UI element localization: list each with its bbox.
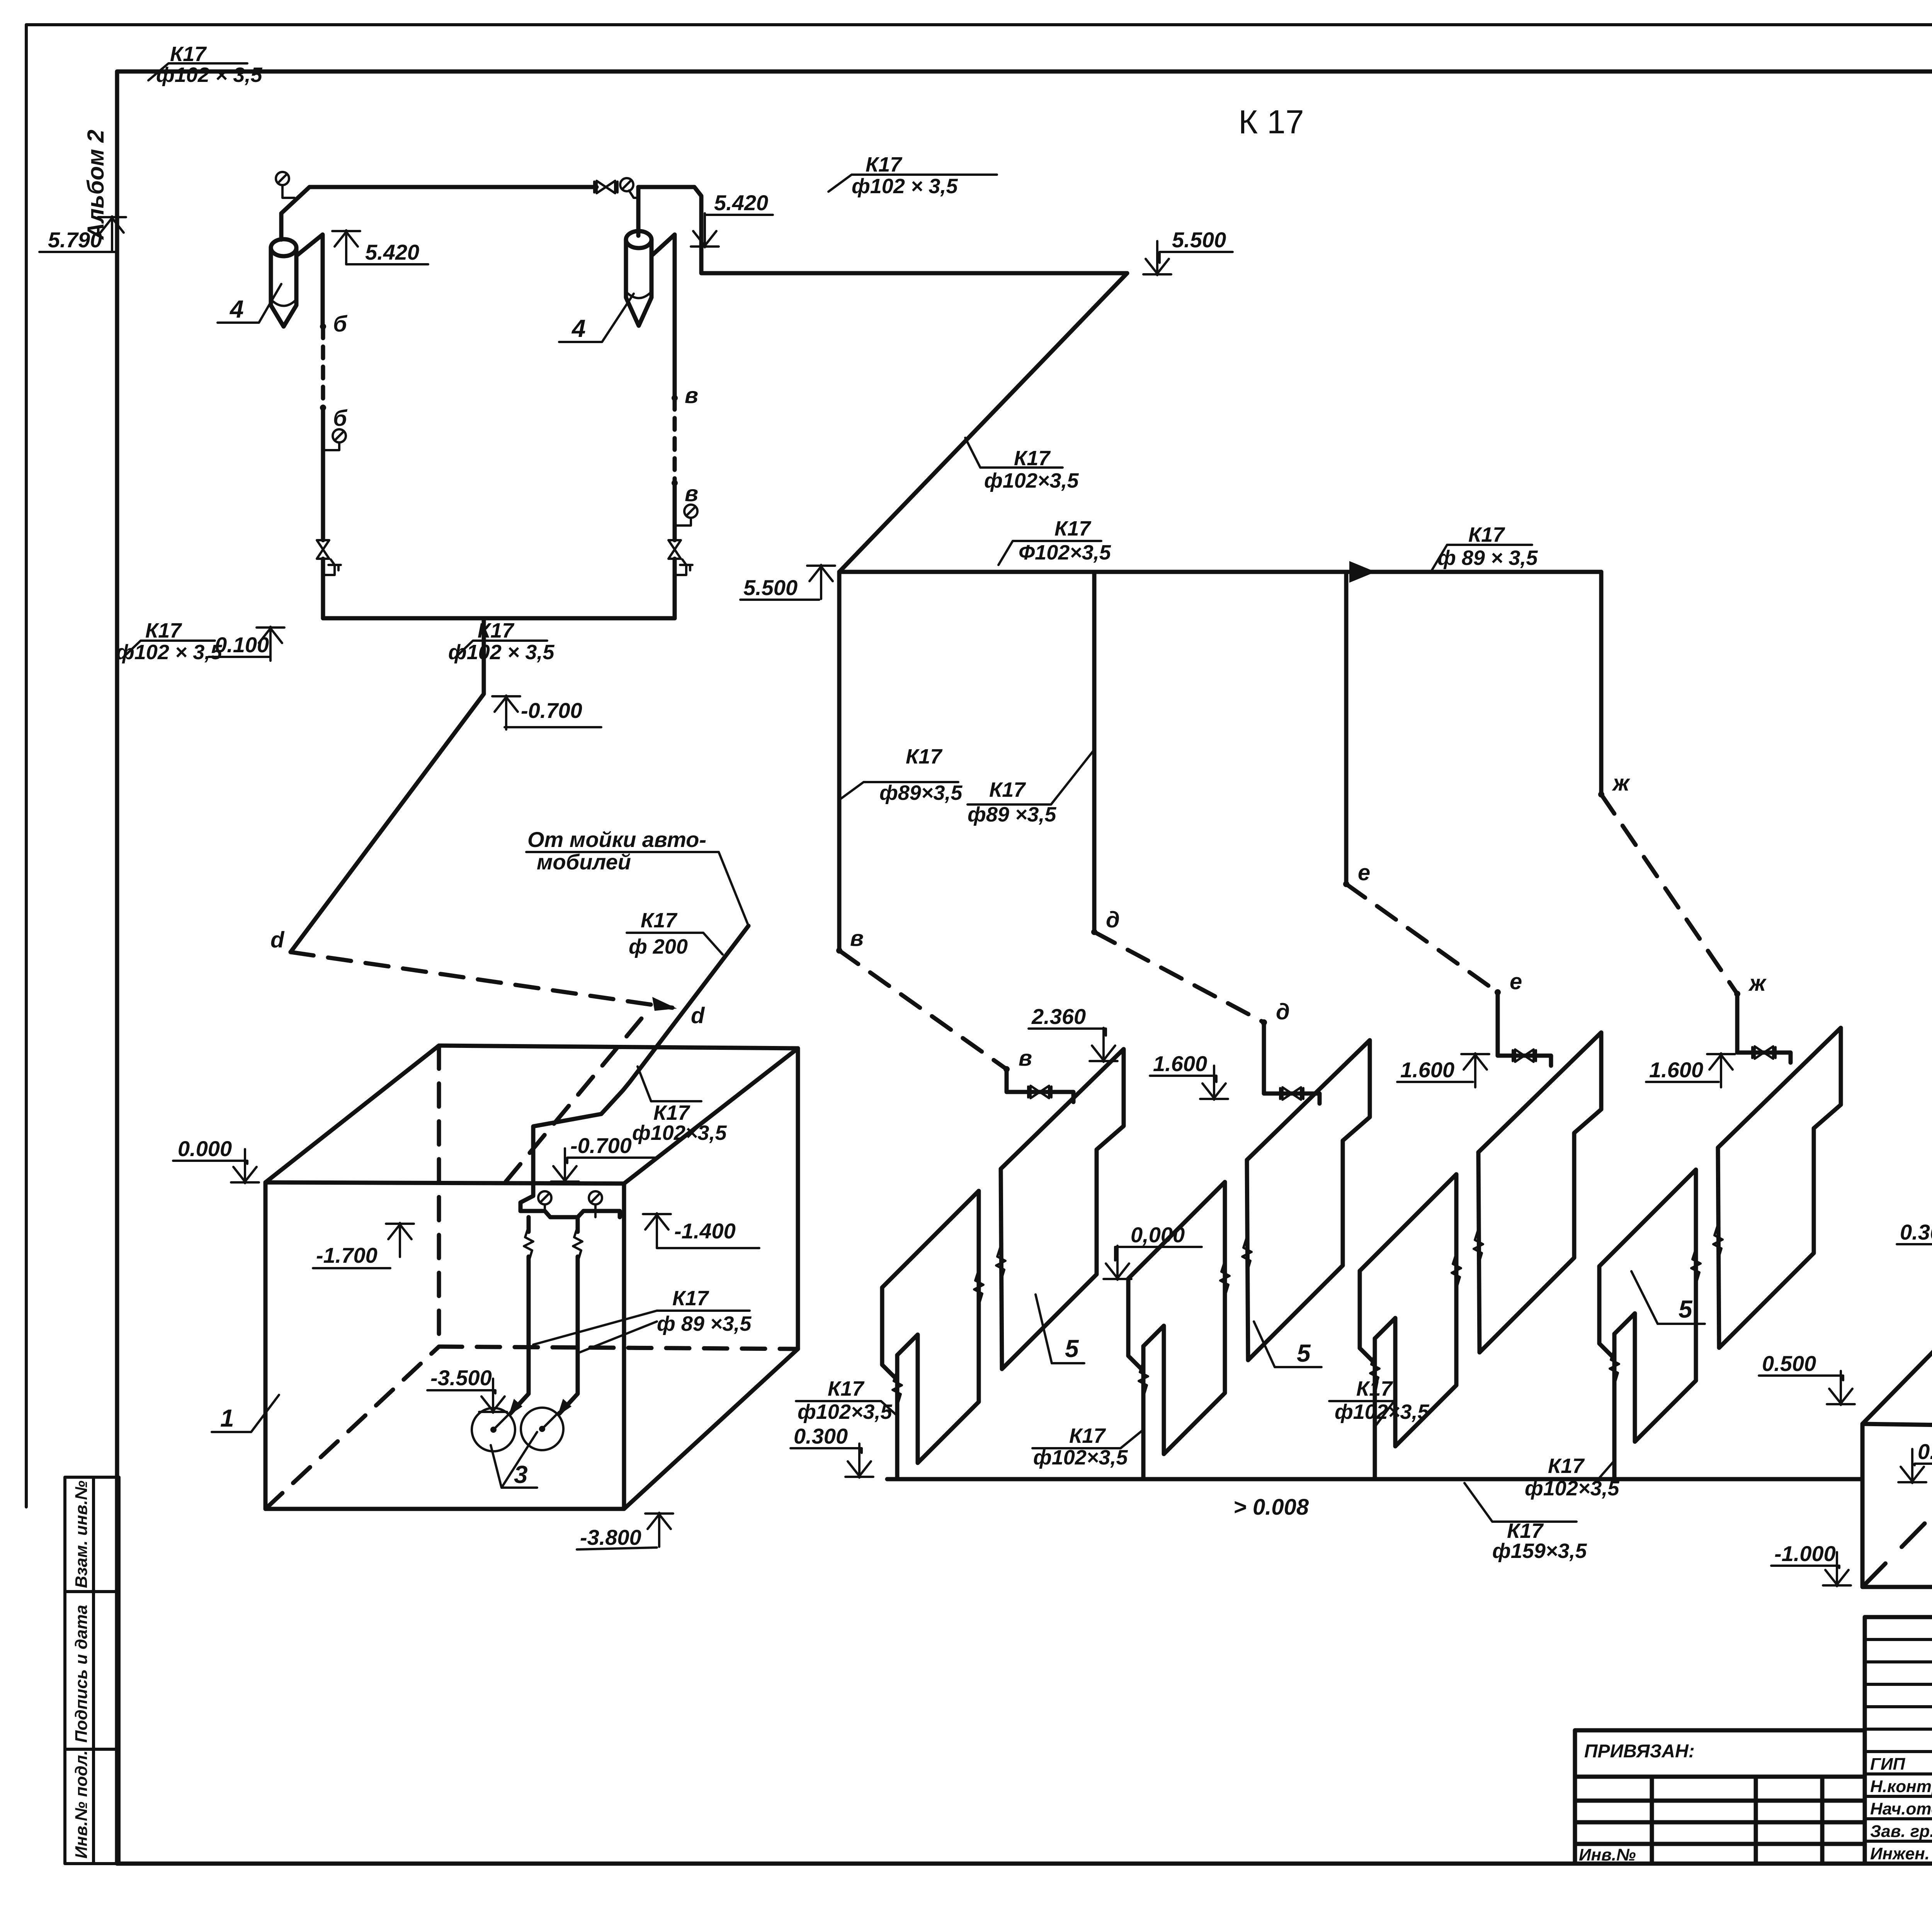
node б (lower) — [320, 405, 326, 411]
plate unit 5 (pair 1) left plate — [882, 1191, 979, 1463]
svg-text:К17: К17 — [672, 1287, 709, 1310]
svg-text:ПРИВЯЗАН:: ПРИВЯЗАН: — [1584, 1741, 1695, 1762]
node ж (plate inlet) — [1734, 991, 1740, 997]
svg-text:d: d — [691, 1003, 705, 1028]
node е (plate inlet) — [1495, 989, 1501, 995]
wire: outlet riser to collector (pair 4) — [1612, 1334, 1617, 1479]
svg-text:ф89 ×3,5: ф89 ×3,5 — [968, 803, 1056, 826]
svg-text:К17: К17 — [906, 745, 943, 768]
break on right plate left edge (pair 4) — [1713, 1225, 1723, 1260]
wire: pipe в down — [673, 483, 677, 540]
svg-text:ж: ж — [1748, 971, 1767, 996]
label K17 f89x3.5 (riser д) — [968, 750, 1094, 804]
plate unit 5 (pair 1) right plate — [1001, 1049, 1124, 1369]
riser 1 inside tank — [510, 1217, 529, 1413]
svg-text:0.500: 0.500 — [1762, 1351, 1816, 1376]
manometer on pipe б — [333, 429, 346, 442]
svg-text:ф102×3,5: ф102×3,5 — [984, 469, 1079, 492]
wire: diagonal from top pipe down to main header — [839, 273, 1127, 572]
label K17 f159x3.5 (collector) — [1464, 1483, 1577, 1522]
svg-text:-3.800: -3.800 — [580, 1525, 641, 1549]
funnel 4 (left): cylinder with cone — [271, 239, 296, 327]
arrow head at d right — [652, 997, 677, 1011]
arrowhead to pump2 — [558, 1399, 571, 1416]
svg-text:ф 89 × 3,5: ф 89 × 3,5 — [1437, 546, 1538, 570]
svg-text:1: 1 — [220, 1404, 234, 1432]
svg-text:К17: К17 — [653, 1101, 690, 1124]
svg-text:К 17: К 17 — [1238, 104, 1304, 141]
svg-text:в: в — [1019, 1046, 1032, 1071]
svg-text:1.600: 1.600 — [1649, 1058, 1703, 1082]
plate unit 5 (pair 3) left plate — [1360, 1174, 1456, 1446]
svg-text:-1.700: -1.700 — [316, 1243, 378, 1267]
svg-text:Зав. гр.: Зав. гр. — [1870, 1822, 1932, 1841]
node д (header bottom) — [1091, 929, 1097, 935]
svg-text:ж: ж — [1612, 770, 1631, 796]
svg-text:ГИП: ГИП — [1870, 1755, 1906, 1774]
label K17 f102x3.5 (pipe в) — [455, 641, 547, 658]
valve on main pipe — [594, 181, 617, 193]
manometer 1 on assembly — [538, 1191, 551, 1204]
svg-text:д: д — [1106, 907, 1120, 932]
wire below valve — [673, 559, 677, 618]
node д (plate inlet) — [1261, 1019, 1267, 1026]
svg-text:Альбом 2: Альбом 2 — [83, 129, 109, 240]
node в (header bottom) — [836, 947, 842, 954]
wire: outlet riser to collector (pair 3) — [1373, 1338, 1377, 1479]
plate unit 5 (pair 2) right plate — [1247, 1040, 1370, 1360]
wire: inlet stub with valve (point д) — [1264, 1022, 1320, 1104]
svg-text:ф102×3,5: ф102×3,5 — [1033, 1446, 1128, 1469]
svg-text:4: 4 — [571, 315, 586, 342]
label K17 f89x3.5 (header right part) — [1432, 545, 1532, 570]
svg-text:в: в — [850, 926, 864, 951]
svg-text:5: 5 — [1297, 1339, 1311, 1367]
svg-text:От мойки авто-: От мойки авто- — [527, 827, 706, 852]
pump 3 circle 2 — [521, 1408, 563, 1450]
svg-text:ф102 × 3,5: ф102 × 3,5 — [448, 641, 554, 664]
svg-text:К17: К17 — [1548, 1454, 1585, 1478]
svg-text:5.420: 5.420 — [714, 190, 768, 215]
svg-text:ф 89 ×3,5: ф 89 ×3,5 — [657, 1312, 752, 1335]
svg-text:ф89×3,5: ф89×3,5 — [879, 781, 963, 804]
svg-text:0.000: 0.000 — [178, 1136, 232, 1161]
svg-text:б: б — [333, 311, 348, 337]
tap on pipe б — [323, 560, 341, 575]
svg-text:К17: К17 — [1054, 517, 1092, 540]
label 5 (pair 2) — [1254, 1321, 1321, 1367]
wire: funnel 2 outlet to point в — [651, 235, 675, 398]
wire: horizontal connector at 0.100 — [291, 618, 675, 952]
title block outline — [1865, 1617, 1932, 1864]
svg-text:К17: К17 — [989, 778, 1026, 801]
wire: riser д from header — [1092, 572, 1097, 932]
wire: dashed jump е to plates — [1346, 884, 1498, 992]
wire: main header horizontal — [839, 570, 1601, 574]
svg-text:К17: К17 — [1507, 1519, 1544, 1543]
svg-text:К17: К17 — [1468, 523, 1505, 546]
label K17 f102x3.5 (top left) — [148, 63, 247, 80]
svg-text:-0.700: -0.700 — [521, 698, 582, 723]
svg-text:в: в — [685, 383, 698, 408]
label 4 (left funnel) — [218, 284, 281, 323]
tank 6 isometric box — [1862, 1251, 1932, 1587]
svg-text:Взам. инв.№: Взам. инв.№ — [72, 1481, 91, 1588]
wire: funnel 1 outlet to point б — [296, 235, 323, 327]
break on left plate right edge (pair 2) — [1220, 1261, 1230, 1296]
svg-text:д: д — [1276, 999, 1290, 1024]
arrowhead to pump1 — [509, 1399, 522, 1416]
node в (upper) — [672, 395, 678, 401]
wire: solid pipe f200 down to tank — [533, 926, 748, 1162]
label 5 (pair 1) — [1036, 1294, 1084, 1363]
svg-text:К17: К17 — [1069, 1424, 1106, 1447]
svg-text:К17: К17 — [866, 153, 903, 176]
svg-text:-3.500: -3.500 — [430, 1366, 492, 1390]
svg-text:5: 5 — [1679, 1295, 1693, 1323]
label K17 f102x3.5 (pipe б) — [123, 641, 215, 658]
svg-text:мобилей: мобилей — [537, 850, 631, 874]
svg-text:К17: К17 — [1356, 1377, 1393, 1400]
manometer stem — [282, 185, 294, 198]
svg-text:5.420: 5.420 — [365, 240, 419, 264]
wire: inlet stub with valve (point в) — [1007, 1069, 1073, 1102]
break on right plate left edge (pair 3) — [1474, 1229, 1483, 1265]
svg-text:4: 4 — [229, 295, 244, 323]
svg-text:-1.400: -1.400 — [674, 1219, 736, 1243]
wire: dashed jump ж to plates — [1601, 794, 1737, 994]
svg-text:К17: К17 — [1014, 447, 1051, 470]
svg-text:ф102 × 3,5: ф102 × 3,5 — [156, 63, 262, 87]
pump 3 circle 1 — [472, 1408, 515, 1451]
wire: dashed jump в — [673, 398, 677, 483]
svg-text:Инв.№: Инв.№ — [1579, 1845, 1636, 1864]
label K17 f102x3.5 (on diagonal upper) — [965, 438, 1063, 468]
break on left plate right edge (pair 4) — [1691, 1248, 1701, 1284]
svg-text:d: d — [270, 927, 285, 952]
plate unit 5 (pair 4) left plate — [1599, 1170, 1696, 1442]
privjazan block — [1575, 1730, 1865, 1864]
node ж (header bottom) — [1598, 791, 1604, 798]
wire: inlet stub with valve (point е) — [1498, 992, 1551, 1066]
svg-text:-1.000: -1.000 — [1774, 1541, 1836, 1566]
wire: header turn down at ж — [1599, 572, 1604, 794]
wire: funnel 2 inlet drop — [636, 187, 641, 236]
svg-text:К17: К17 — [170, 43, 207, 66]
flow arrow on header — [1349, 561, 1376, 583]
svg-text:0.300: 0.300 — [1900, 1220, 1932, 1244]
manometer assembly inside tank — [520, 1211, 620, 1217]
wire: riser в from header — [837, 572, 842, 951]
svg-text:0.160: 0.160 — [1918, 1439, 1932, 1464]
break on right plate left edge (pair 2) — [1242, 1237, 1252, 1272]
wire: dashed jump д to plates — [1094, 932, 1264, 1022]
node в (plate inlet) — [1003, 1066, 1010, 1072]
wire: bottom collector — [887, 1477, 1862, 1481]
wire: dashed jump б — [321, 327, 325, 408]
svg-text:е: е — [1510, 969, 1522, 994]
label K17 f102x3.5 (top middle) — [828, 175, 997, 192]
manometer on pipe в — [684, 505, 697, 518]
plate unit 5 (pair 4) right plate — [1718, 1028, 1841, 1348]
svg-text:ф102×3,5: ф102×3,5 — [1335, 1400, 1429, 1423]
svg-text:К17: К17 — [641, 909, 678, 932]
manometer 2 stem — [629, 190, 638, 198]
label K17 f89x3.5 (riser в) — [839, 782, 958, 800]
svg-text:ф102×3,5: ф102×3,5 — [798, 1400, 892, 1423]
svg-text:5.790: 5.790 — [48, 228, 102, 252]
svg-text:Инв.№ подл.: Инв.№ подл. — [72, 1750, 91, 1859]
manometer after valve — [620, 178, 633, 191]
svg-text:ф 200: ф 200 — [629, 935, 688, 958]
svg-text:-0.700: -0.700 — [570, 1133, 632, 1158]
node в (lower) — [672, 480, 678, 486]
svg-text:Нач.отд.: Нач.отд. — [1870, 1799, 1932, 1818]
plate unit 5 (pair 2) left plate — [1128, 1182, 1225, 1454]
wire: inlet stub with valve (point ж) — [1737, 994, 1791, 1063]
break on left plate right edge (pair 1) — [974, 1270, 983, 1305]
svg-text:Инжен.: Инжен. — [1870, 1844, 1930, 1863]
svg-text:Ф102×3,5: Ф102×3,5 — [1019, 541, 1111, 564]
svg-text:0.300: 0.300 — [794, 1424, 848, 1448]
node б (upper) — [320, 323, 326, 330]
svg-text:5: 5 — [1065, 1335, 1079, 1362]
elevation -1.400 — [643, 1213, 671, 1247]
svg-text:К17: К17 — [828, 1377, 865, 1400]
svg-text:0,000: 0,000 — [1131, 1223, 1185, 1247]
elevation -0.700 (left) — [492, 696, 520, 730]
manometer on left riser top — [276, 172, 289, 185]
svg-text:1.600: 1.600 — [1153, 1051, 1207, 1076]
svg-text:0.100: 0.100 — [215, 633, 269, 657]
svg-text:1.600: 1.600 — [1400, 1058, 1454, 1082]
funnel 4 (right): cylinder with cone — [626, 231, 651, 326]
riser 2 inside tank — [560, 1217, 578, 1413]
label 4 (right funnel) — [559, 294, 634, 342]
plate unit 5 (pair 3) right plate — [1478, 1032, 1601, 1352]
break on left plate right edge (pair 3) — [1452, 1253, 1461, 1289]
svg-text:ф159×3,5: ф159×3,5 — [1492, 1539, 1587, 1563]
node е (header bottom) — [1343, 881, 1349, 887]
svg-text:ф102 × 3,5: ф102 × 3,5 — [852, 175, 958, 198]
wire: pipe б down — [321, 408, 325, 540]
manometer 2 on assembly — [589, 1191, 602, 1204]
svg-text:5.500: 5.500 — [1172, 228, 1226, 252]
valve on pipe в — [668, 540, 681, 559]
svg-text:К17: К17 — [145, 619, 182, 642]
label 5 (pair 3) — [1631, 1271, 1705, 1324]
left stamp column boxes — [65, 1477, 119, 1864]
svg-text:в: в — [685, 481, 698, 506]
break on right plate left edge (pair 1) — [996, 1246, 1005, 1281]
wire: main top pipe K17 f102x3.5 — [310, 187, 1127, 273]
wire: outlet riser to collector (pair 1) — [895, 1355, 900, 1479]
wire: dashed jump в to plates — [839, 951, 1007, 1069]
svg-text:Н.контр.: Н.контр. — [1870, 1777, 1932, 1796]
svg-text:е: е — [1358, 860, 1370, 885]
wire below valve — [321, 559, 325, 618]
wire: dashed line d to d — [291, 952, 672, 1008]
svg-text:2.360: 2.360 — [1031, 1004, 1086, 1029]
tap on pipe в — [675, 560, 692, 575]
valve on pipe б — [317, 540, 329, 559]
wire: elbow down to funnel 1 — [281, 187, 310, 240]
tank 1 isometric box — [265, 1046, 798, 1509]
svg-text:5.500: 5.500 — [743, 575, 798, 600]
svg-text:Подпись и дата: Подпись и дата — [72, 1605, 91, 1743]
label K17 f102x3.5 (tank inlet pipe) — [638, 1066, 701, 1101]
svg-text:> 0.008: > 0.008 — [1233, 1495, 1309, 1520]
svg-text:ф102 × 3,5: ф102 × 3,5 — [116, 641, 222, 664]
wire: riser е from header — [1344, 572, 1349, 884]
svg-text:б: б — [333, 406, 348, 431]
wire: dashed hidden pipe parallel to inlet — [506, 1019, 641, 1182]
wire: outlet riser to collector (pair 2) — [1141, 1346, 1146, 1479]
small revision table rows — [1865, 1639, 1932, 1841]
